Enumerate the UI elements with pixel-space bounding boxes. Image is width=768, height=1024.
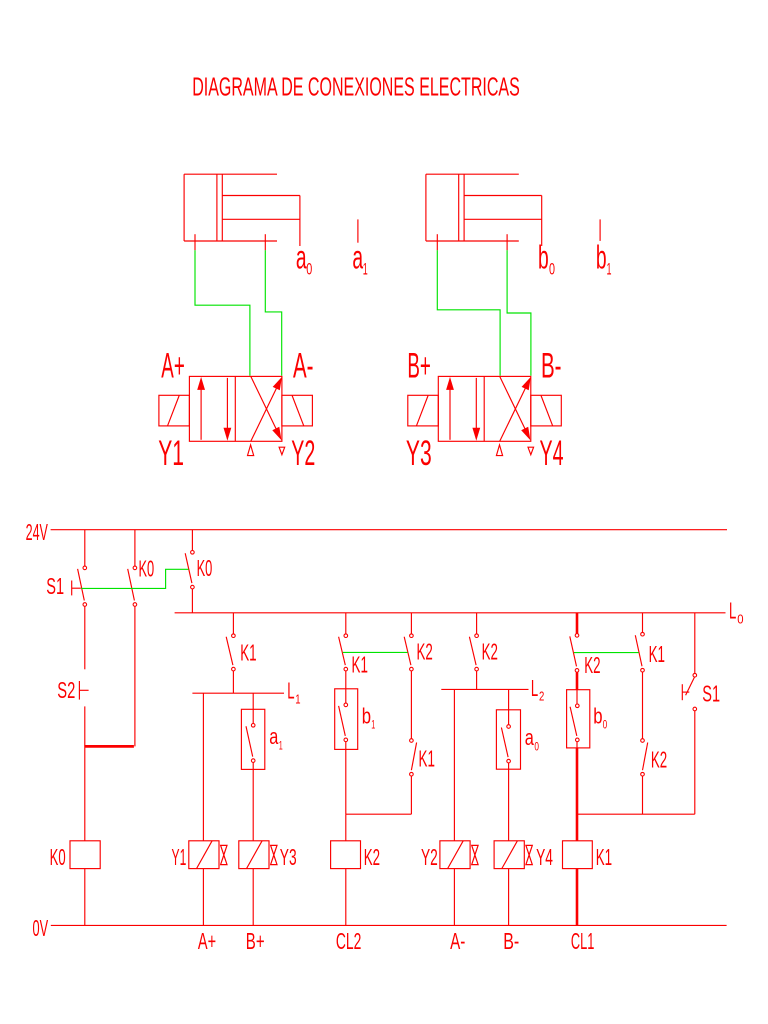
label Y2 (coil): [421, 844, 438, 870]
label K1 (coil): [596, 844, 612, 870]
solenoid coil Y2: [440, 841, 478, 869]
wire K1b to b1 box: [345, 671, 347, 689]
svg-text:B-: B-: [541, 345, 562, 385]
S1 right actuator bar: [682, 684, 689, 700]
svg-text:b: b: [596, 238, 607, 275]
wire L1 to a1 box: [252, 693, 254, 709]
svg-text:K0: K0: [139, 555, 155, 581]
S1 actuator bar: [72, 581, 81, 596]
svg-text:A+: A+: [161, 345, 185, 385]
wire L1 to Y1 coil: [202, 693, 204, 841]
label K1 (L1 contact): [240, 639, 256, 665]
label CL1: [571, 928, 595, 954]
svg-text:K0: K0: [197, 555, 213, 581]
valve A cross arrow 2: [251, 376, 282, 440]
label B+: [407, 345, 431, 385]
svg-text:1: 1: [295, 691, 300, 706]
label K1 (b0 rung): [649, 641, 665, 667]
label Y3 (valve B): [406, 433, 432, 473]
svg-text:b: b: [538, 238, 549, 275]
green wire B2: [507, 250, 531, 375]
wire lower K2 to junction: [642, 776, 644, 814]
svg-text:B-: B-: [503, 928, 519, 954]
label S2: [57, 677, 75, 703]
wire K1a to L1: [232, 671, 234, 693]
junction link b1/K1: [346, 813, 412, 815]
label A-: [293, 345, 314, 385]
label K0 (coil): [50, 844, 66, 870]
cylinder A port tick 1: [194, 234, 196, 250]
label K2 (b1 rung): [417, 639, 433, 665]
junction bold link: [84, 745, 134, 748]
valve A divider: [234, 376, 236, 441]
svg-text:CL2: CL2: [336, 928, 362, 954]
label K0 (hold contact): [139, 555, 155, 581]
wire K1a branch top: [232, 613, 234, 634]
label B-: [541, 345, 562, 385]
wire Y2 coil to 0V: [453, 869, 455, 926]
contact K1 (to L1): [226, 634, 235, 671]
label b1 (contact): [362, 704, 376, 732]
svg-text:B+: B+: [407, 345, 431, 385]
wire K1c to lower K2: [642, 672, 644, 739]
sensor mark b1: [599, 219, 601, 241]
svg-text:B+: B+: [246, 928, 265, 954]
cylinder A barrel+piston+rod: [184, 174, 300, 246]
limit switch a1 contact: [246, 709, 255, 769]
valve B exhaust triangle right: [528, 447, 534, 455]
wire S1b to junction: [694, 711, 696, 814]
green wire A2: [265, 250, 281, 375]
label CL2: [336, 928, 362, 954]
solenoid box right of valve B: [531, 395, 562, 426]
svg-text:A+: A+: [198, 928, 216, 954]
wire K2d to b0 box bold: [576, 672, 579, 690]
wire junction to K2 coil: [345, 814, 347, 841]
svg-text:K1: K1: [419, 745, 435, 771]
svg-text:K2: K2: [651, 747, 667, 773]
wire L2 to Y2 coil: [453, 689, 455, 840]
title text: [192, 71, 520, 101]
label A+: [161, 345, 185, 385]
svg-text:0V: 0V: [33, 915, 49, 941]
svg-text:K2: K2: [482, 639, 498, 665]
svg-text:2: 2: [539, 689, 544, 704]
contact K2 (b0 rung): [570, 634, 579, 673]
solenoid box right of valve A: [282, 395, 313, 426]
label Y1 (coil): [172, 844, 187, 870]
green wire B1: [437, 250, 500, 375]
wire b1 box to junction: [345, 749, 347, 814]
wire S1 to S2: [84, 606, 86, 669]
solenoid box left of valve B: [408, 395, 439, 426]
limit switch b1 box: [335, 689, 358, 750]
label K2 (b0 rung): [584, 652, 600, 678]
label K0 (L0 contact): [197, 555, 213, 581]
label L0: [729, 598, 744, 627]
wire Y3 coil to 0V: [252, 869, 254, 926]
wire K2 coil to 0V: [345, 869, 347, 926]
coil K2: [331, 841, 361, 869]
svg-text:S1: S1: [702, 681, 720, 707]
cylinder B port tick 1: [436, 234, 438, 250]
svg-text:b: b: [362, 704, 371, 729]
svg-text:Y2: Y2: [421, 844, 438, 870]
valve A exhaust triangle left: [248, 445, 254, 456]
svg-text:L: L: [287, 678, 294, 704]
svg-text:K1: K1: [649, 641, 665, 667]
limit switch b1 contact: [339, 689, 348, 750]
wire a0 box to Y4 coil: [508, 769, 510, 841]
label S1 (right): [702, 681, 720, 707]
sensor label a1: [352, 238, 367, 278]
svg-text:Y4: Y4: [540, 433, 564, 473]
solenoid box left of valve A: [159, 395, 190, 426]
svg-text:S1: S1: [46, 573, 64, 599]
junction link right: [577, 813, 695, 815]
svg-text:0: 0: [306, 260, 312, 279]
svg-text:Y4: Y4: [536, 844, 553, 870]
valve B divider: [483, 376, 485, 441]
wire junction to K0 coil: [84, 748, 86, 841]
svg-text:K1: K1: [240, 639, 256, 665]
valve B cross arrow 2: [500, 376, 531, 440]
wire K2b to lower K1: [410, 671, 412, 739]
label a1 (contact): [269, 724, 283, 753]
solenoid coil Y4: [494, 841, 532, 869]
wire K0a down to junction: [134, 606, 136, 746]
label b0 (contact): [593, 704, 607, 732]
green link K2-K1: [574, 652, 639, 654]
label S1: [46, 573, 64, 599]
cylinder B barrel+piston+rod: [426, 174, 542, 246]
wire K0b branch top: [191, 530, 193, 551]
svg-text:K0: K0: [50, 844, 66, 870]
svg-text:K1: K1: [352, 652, 368, 678]
limit switch a0 contact: [501, 710, 510, 769]
label Y4 (valve B): [540, 433, 564, 473]
svg-text:a: a: [525, 725, 535, 750]
valve A exhaust triangle right: [279, 447, 285, 455]
wire K2c to L2: [476, 671, 478, 690]
svg-text:A-: A-: [450, 928, 465, 954]
limit switch b0 contact: [570, 690, 579, 748]
svg-text:L: L: [531, 675, 538, 701]
label Y1 (valve A): [158, 433, 184, 473]
valve A body: [189, 376, 282, 441]
rail L0: [175, 612, 726, 614]
green link K1-K2: [343, 651, 408, 653]
wire Y4 coil to 0V: [508, 869, 510, 926]
svg-text:0: 0: [603, 718, 608, 732]
svg-text:0: 0: [737, 611, 743, 626]
label K2 (lower): [651, 747, 667, 773]
svg-text:CL1: CL1: [571, 928, 595, 954]
wire S1 branch top: [84, 530, 86, 566]
svg-text:L: L: [729, 598, 736, 624]
limit switch a0 box: [496, 710, 520, 769]
wire a1 box to Y3 coil: [252, 769, 254, 840]
label K2 (L2 contact): [482, 639, 498, 665]
label 0V: [33, 915, 49, 941]
label K1 (b1 rung): [352, 652, 368, 678]
svg-text:K2: K2: [584, 652, 600, 678]
rail L1: [192, 692, 284, 694]
svg-text:Y1: Y1: [158, 433, 184, 473]
contact K2 (to L2): [469, 634, 478, 671]
svg-text:1: 1: [607, 260, 612, 279]
green link S1-K0: [81, 569, 188, 588]
coil K0: [70, 841, 100, 869]
svg-text:Y1: Y1: [172, 844, 187, 870]
valve A cross arrow 1: [251, 377, 282, 441]
valve B cross arrow 1: [500, 377, 531, 441]
label B+ (bottom): [246, 928, 265, 954]
svg-text:Y2: Y2: [291, 433, 315, 473]
label A+ (bottom): [198, 928, 216, 954]
contact K0 (to L0): [185, 551, 194, 589]
svg-text:24V: 24V: [26, 519, 49, 545]
valve B down arrow: [472, 378, 480, 441]
wire K1 coil to 0V bold: [576, 869, 579, 926]
wire K2c branch top: [476, 613, 478, 634]
rail 0V: [51, 924, 727, 926]
valve B body: [438, 376, 531, 441]
svg-text:0: 0: [534, 740, 539, 754]
svg-text:b: b: [593, 704, 602, 729]
wire K1b branch top: [345, 613, 347, 634]
wire K0 coil to 0V: [84, 869, 86, 926]
limit switch a1 box: [241, 709, 264, 769]
svg-text:A-: A-: [293, 345, 314, 385]
svg-text:1: 1: [363, 260, 368, 279]
label A- (bottom): [450, 928, 465, 954]
wire K0a branch top: [134, 530, 136, 566]
svg-text:Y3: Y3: [406, 433, 432, 473]
label K1 (lower): [419, 745, 435, 771]
svg-text:Y3: Y3: [280, 844, 297, 870]
label Y2 (valve A): [291, 433, 315, 473]
limit switch b0 box: [567, 690, 590, 748]
svg-text:K2: K2: [364, 844, 380, 870]
green wire A1: [195, 250, 250, 375]
sensor label b1: [596, 238, 612, 278]
label K2 (coil): [364, 844, 380, 870]
wire Y1 coil to 0V: [202, 869, 204, 926]
label L2: [531, 675, 544, 704]
svg-text:K1: K1: [596, 844, 612, 870]
wire K0b to L0: [191, 589, 193, 613]
coil K1: [563, 841, 593, 869]
cylinder A port tick 2: [264, 234, 266, 250]
label Y3 (coil): [280, 844, 297, 870]
contact K0 (hold): [128, 566, 137, 606]
contact K1 (lower): [410, 739, 417, 776]
label L1: [287, 678, 300, 707]
svg-text:S2: S2: [57, 677, 75, 703]
label 24V: [26, 519, 49, 545]
sensor mark a1: [357, 219, 359, 242]
solenoid coil Y1: [189, 841, 227, 869]
solenoid coil Y3: [239, 841, 277, 869]
contact S1: [78, 566, 87, 606]
svg-text:0: 0: [549, 260, 555, 279]
wire K1c branch top: [642, 613, 644, 633]
rail L2: [441, 688, 528, 690]
svg-text:a: a: [269, 724, 279, 749]
sensor label b0: [538, 238, 555, 278]
valve A down arrow: [224, 378, 232, 441]
label B- (bottom): [503, 928, 519, 954]
cylinder B port tick 2: [506, 234, 508, 250]
sensor label a0: [296, 238, 312, 278]
wire lower K1 to junction: [410, 776, 412, 814]
valve B exhaust triangle left: [496, 445, 502, 456]
contact K2 (b1 rung): [404, 634, 413, 671]
wire b0 box to K1 coil bold: [576, 748, 579, 841]
rail 24V: [51, 529, 727, 531]
svg-text:1: 1: [371, 718, 375, 732]
contact S1 (right): [686, 673, 697, 710]
wire S1b branch top: [694, 613, 696, 674]
svg-text:K2: K2: [417, 639, 433, 665]
label a0 (contact): [525, 725, 539, 754]
label Y4 (coil): [536, 844, 553, 870]
contact K1 (b1 rung): [339, 634, 348, 671]
valve A up arrow: [197, 377, 205, 440]
contact K1 (b0 rung): [635, 632, 644, 672]
wire S2 to junction: [84, 706, 86, 745]
wire K2b branch top: [410, 613, 412, 634]
valve B up arrow: [446, 377, 454, 440]
svg-text:1: 1: [279, 739, 283, 753]
contact K2 (lower): [641, 739, 648, 776]
pushbutton S2: [79, 681, 88, 700]
svg-text:DIAGRAMA DE CONEXIONES ELECTRI: DIAGRAMA DE CONEXIONES ELECTRICAS: [192, 71, 520, 101]
wire L2 to a0 box: [508, 689, 510, 709]
wire K2d branch top bold: [576, 613, 579, 634]
